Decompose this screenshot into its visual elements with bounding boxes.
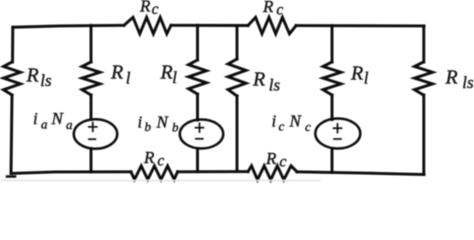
resistor Rls (leftmost leakage) — [4, 62, 21, 95]
svg-text:b: b — [145, 119, 152, 134]
resistor Rl (phase a limb) — [82, 62, 100, 95]
wire branch 2 lower — [90, 149, 93, 172]
label ib Nb — [138, 113, 180, 135]
source a minus sign — [89, 138, 96, 140]
wire top rail middle segment — [171, 24, 248, 27]
label ia Na — [33, 109, 73, 132]
svg-text:N: N — [156, 113, 170, 132]
svg-text:a: a — [41, 117, 48, 132]
source c plus sign — [334, 124, 342, 133]
wire branch 5 lower — [331, 149, 334, 173]
svg-text:i: i — [33, 109, 38, 128]
svg-text:Rc: Rc — [143, 148, 164, 170]
wire branch 1 upper — [11, 27, 14, 62]
svg-text:i: i — [138, 113, 143, 132]
svg-text:Rls: Rls — [252, 69, 280, 95]
svg-text:c: c — [279, 119, 285, 134]
wire branch 4 lower — [236, 96, 239, 172]
source c minus sign — [334, 138, 341, 140]
wire branch 4 upper (middle leakage) — [236, 26, 239, 60]
wire branch 5 middle — [331, 95, 334, 120]
resistor Rc (top right yoke) — [248, 17, 296, 34]
wire branch 3 middle — [196, 94, 199, 120]
svg-text:Rc: Rc — [139, 0, 159, 18]
svg-text:N: N — [289, 112, 303, 131]
wire branch 2 upper (phase a limb) — [90, 25, 93, 62]
scan blob bottom-left corner — [7, 175, 15, 178]
wire branch 6 lower — [422, 95, 425, 175]
svg-text:Rl: Rl — [160, 62, 178, 88]
source a plus sign — [89, 123, 97, 132]
svg-text:N: N — [51, 109, 65, 128]
svg-text:c: c — [305, 119, 311, 134]
source b minus sign — [196, 138, 203, 140]
source b plus sign — [196, 123, 204, 132]
resistor Rl (phase c limb) — [323, 62, 341, 95]
wire branch 2 middle — [90, 95, 93, 120]
svg-text:Rl: Rl — [110, 62, 131, 88]
svg-text:a: a — [66, 117, 73, 132]
resistor Rc (bottom right yoke) — [248, 166, 297, 180]
label ic Nc — [272, 112, 312, 135]
svg-text:b: b — [172, 120, 179, 135]
wire top rail left segment — [13, 25, 124, 27]
wire top rail right segment — [296, 24, 424, 27]
resistor Rc (bottom left yoke) — [131, 166, 178, 180]
svg-text:i: i — [272, 112, 277, 131]
wire branch 1 lower — [11, 95, 12, 173]
svg-text:Rl: Rl — [350, 63, 369, 88]
wire branch 3 upper (phase b limb) — [196, 25, 199, 60]
svg-text:Rc: Rc — [262, 0, 283, 19]
wire branch 3 lower — [196, 149, 199, 172]
wire branch 5 upper (phase c limb) — [331, 26, 334, 62]
resistor Rl (phase b limb) — [189, 60, 207, 94]
source ic Nc (MMF source phase c) — [315, 119, 360, 149]
wire bottom rail middle segment — [178, 170, 249, 173]
wire branch 6 upper (right leakage) — [422, 26, 425, 62]
resistor Rls (middle leakage) — [228, 59, 246, 96]
source ib Nb (MMF source phase b) — [180, 120, 224, 149]
resistor Rc (top left yoke) — [124, 17, 171, 34]
svg-text:Rls: Rls — [445, 67, 474, 93]
svg-text:Rc: Rc — [265, 149, 287, 171]
scan ghost line bottom — [2, 180, 320, 182]
resistor Rls (rightmost leakage) — [415, 62, 433, 95]
wire bottom rail left segment — [12, 172, 131, 174]
wire bottom rail right segment — [297, 172, 424, 175]
svg-text:Rls: Rls — [26, 64, 52, 90]
source ia Na (MMF source phase a) — [74, 119, 118, 149]
